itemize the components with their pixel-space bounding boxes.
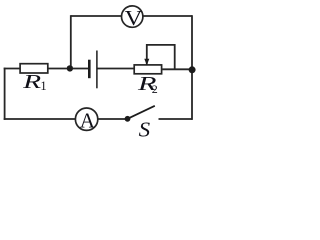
label R2 — [136, 74, 157, 96]
resistor R1 — [20, 64, 48, 73]
battery cell: long thin positive plate — [96, 51, 98, 89]
svg-text:2: 2 — [152, 82, 158, 96]
svg-text:R: R — [22, 72, 42, 93]
battery cell: short thick negative plate — [88, 60, 91, 78]
label R1 — [22, 72, 47, 93]
wire main middle horizontal — [4, 68, 192, 71]
rheostat wiper arrowhead — [144, 59, 149, 66]
svg-text:S: S — [139, 117, 151, 141]
wire bottom horizontal — [4, 118, 192, 120]
node A junction dot (voltmeter tap left) — [67, 65, 73, 71]
rheostat R2 box — [134, 65, 161, 74]
wire top branch horizontal — [71, 15, 192, 17]
ammeter U2 — [75, 108, 97, 132]
svg-text:1: 1 — [40, 79, 46, 93]
wire left vertical — [4, 68, 6, 120]
wire right vertical — [191, 15, 193, 120]
switch S lever — [128, 106, 155, 119]
svg-text:V: V — [125, 6, 143, 30]
wire rheostat wiper branch — [147, 45, 175, 69]
label S — [139, 117, 151, 141]
svg-text:A: A — [80, 108, 96, 132]
voltmeter U1 — [122, 6, 143, 30]
node B junction dot (right) — [189, 66, 196, 73]
wire voltmeter branch vertical — [70, 15, 72, 68]
switch S pivot dot — [125, 116, 131, 122]
